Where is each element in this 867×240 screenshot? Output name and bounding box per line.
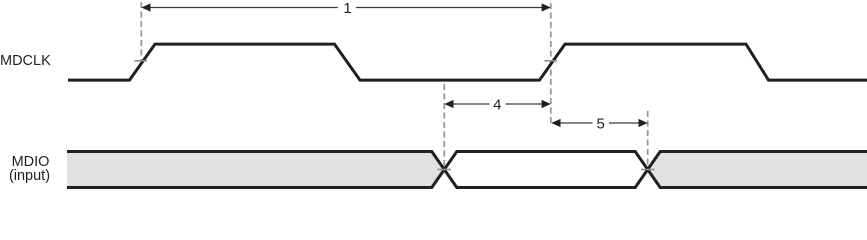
MDIO bus top outline with X crossings [67, 152, 867, 170]
label MDIO (input) [9, 154, 50, 184]
label MDCLK [0, 53, 51, 69]
MDIO bus gray fill left segment [67, 152, 444, 188]
svg-text:1: 1 [343, 0, 351, 17]
dashed line at first MDCLK rising edge [140, 2, 142, 68]
MDCLK waveform [68, 44, 867, 80]
dimension 5 (hold time) [551, 116, 647, 133]
dimension 1 (clock period) [141, 0, 551, 17]
svg-text:(input): (input) [9, 168, 50, 184]
dashed line at second MDCLK rising edge [550, 3, 552, 125]
dashed line at MDIO left transition [443, 84, 445, 167]
svg-text:5: 5 [597, 116, 605, 133]
tick at first MDCLK rising edge midpoint [134, 60, 147, 62]
tick at second MDCLK rising edge midpoint [544, 60, 557, 62]
MDIO bus gray fill right segment [648, 152, 867, 188]
dashed line at MDIO right transition [647, 111, 649, 166]
dimension 4 (setup time) [444, 97, 551, 114]
svg-text:4: 4 [493, 97, 501, 114]
tick at MDIO left crossing [438, 169, 451, 171]
MDIO bus bottom outline with X crossings [67, 170, 867, 188]
tick at MDIO right crossing [641, 169, 654, 171]
svg-text:MDCLK: MDCLK [0, 53, 51, 69]
